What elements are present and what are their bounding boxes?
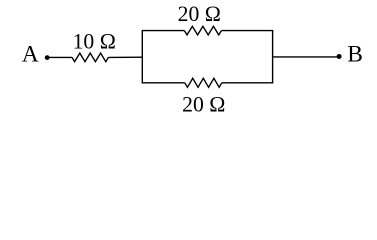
- resistor R1: [72, 53, 108, 62]
- svg-text:B: B: [347, 42, 363, 68]
- svg-text:20 Ω: 20 Ω: [182, 93, 225, 117]
- wire left vertical of parallel box: [141, 31, 143, 83]
- resistor R2: [184, 26, 221, 35]
- wire right vertical of parallel box: [272, 31, 274, 83]
- resistor R3: [185, 78, 222, 87]
- svg-text:10 Ω: 10 Ω: [73, 29, 116, 53]
- wire bottom-right horizontal: [222, 82, 273, 84]
- svg-text:A: A: [22, 42, 39, 68]
- wire: [47, 56, 72, 58]
- terminal dot A: [45, 55, 50, 60]
- terminal dot B: [337, 54, 342, 59]
- wire: [108, 56, 142, 58]
- svg-text:20 Ω: 20 Ω: [178, 2, 221, 26]
- wire top-left horizontal: [142, 30, 185, 32]
- wire bottom-left horizontal: [142, 82, 185, 84]
- wire: [273, 56, 339, 58]
- wire top-right horizontal: [221, 30, 273, 32]
